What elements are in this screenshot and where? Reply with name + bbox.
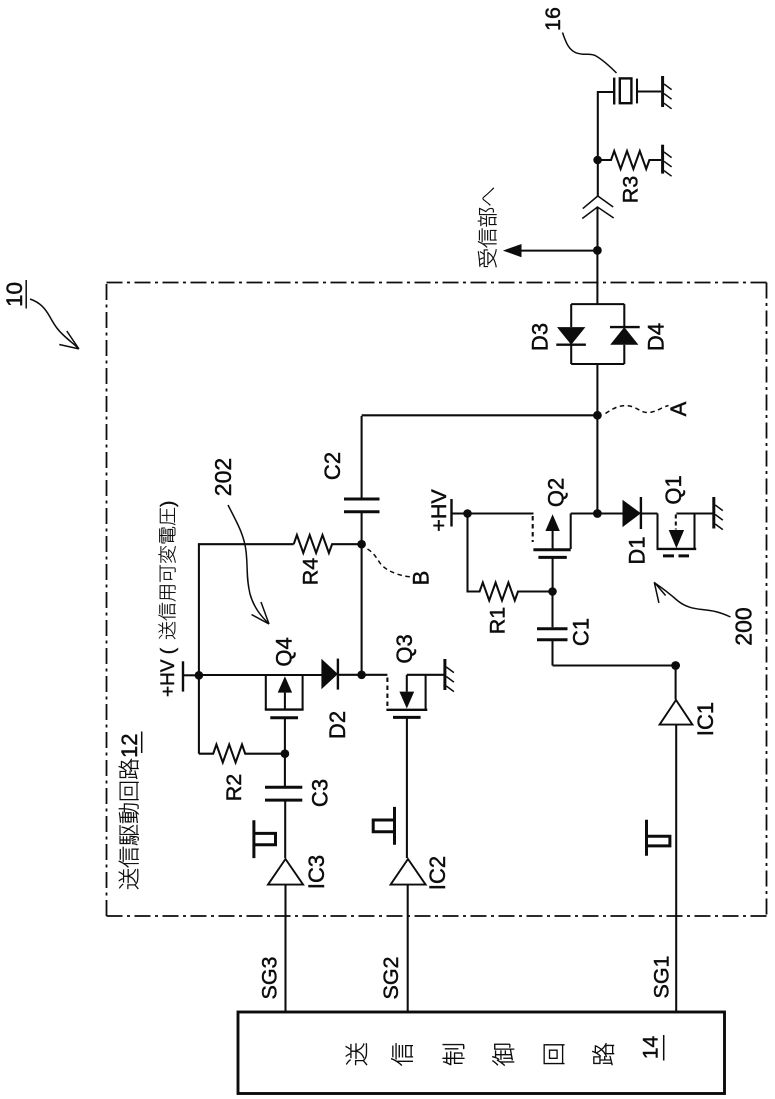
label 送信制御回路 xyxy=(346,1043,614,1066)
resistor R1 xyxy=(468,514,553,635)
transducer 16 (crystal) xyxy=(614,78,661,105)
resistor R3 xyxy=(598,151,661,203)
buffer IC3 xyxy=(268,855,329,1012)
svg-text:Q3: Q3 xyxy=(392,634,417,663)
+HV supply bar (left) xyxy=(183,661,199,691)
capacitor C2 xyxy=(320,416,380,544)
diode D3 xyxy=(528,323,586,351)
pulse waveform at IC2 xyxy=(373,807,396,845)
wire C2 top to node A xyxy=(362,414,598,416)
resistor R2 xyxy=(199,745,285,802)
buffer IC1 xyxy=(660,666,718,1013)
rail +HV to Q2 xyxy=(468,512,534,514)
leader arrow from 200 to Q1 xyxy=(654,582,730,617)
svg-text:R2: R2 xyxy=(222,774,246,801)
svg-text:B: B xyxy=(409,571,434,586)
svg-text:SG1: SG1 xyxy=(650,955,674,998)
leader line for 16 xyxy=(563,33,617,74)
svg-text:Q1: Q1 xyxy=(661,475,686,504)
+HV supply bar (right) xyxy=(452,499,468,527)
node (R2/C3/Q4 gate) xyxy=(281,749,290,758)
svg-text:D2: D2 xyxy=(325,711,350,739)
svg-text:+HV: +HV xyxy=(427,489,451,532)
transistor Q4 xyxy=(265,637,304,753)
diode D2 xyxy=(321,659,361,739)
label 16 xyxy=(541,7,565,31)
leader arrow from 202 to Q4 xyxy=(228,505,269,624)
svg-text:C2: C2 xyxy=(320,452,345,480)
capacitor C1 xyxy=(537,592,676,666)
arrow to receiver (受信部へ) xyxy=(478,188,597,267)
resistor R4 xyxy=(294,535,362,585)
svg-text:R1: R1 xyxy=(486,607,510,634)
svg-text:16: 16 xyxy=(541,7,565,31)
wire +HV node up to R4 xyxy=(199,544,294,754)
diode D4 xyxy=(610,323,669,351)
svg-text:202: 202 xyxy=(210,458,236,496)
diode box D3/D4 xyxy=(571,304,624,364)
svg-text:+HV (: +HV ( xyxy=(158,647,179,697)
node (+HV left rail) xyxy=(195,671,204,680)
svg-text:D1: D1 xyxy=(625,536,650,564)
dash-dot box of drive circuit 12 xyxy=(107,283,767,917)
node A xyxy=(593,411,602,420)
svg-text:A: A xyxy=(666,401,691,416)
ground (R3) xyxy=(663,145,672,177)
svg-text:C1: C1 xyxy=(569,618,594,646)
node B junction xyxy=(357,540,366,549)
node B dashed squiggle and label xyxy=(368,549,434,585)
label 14 (underlined) xyxy=(640,1035,664,1061)
node (R1/C1/Q2 gate) xyxy=(548,587,557,596)
node (receiver tap) xyxy=(593,246,602,255)
svg-text:SG3: SG3 xyxy=(258,956,282,999)
transistor Q3 xyxy=(362,634,445,858)
svg-text:Q4: Q4 xyxy=(272,637,297,666)
wire from transducer to main vertical xyxy=(598,92,614,196)
svg-text:12: 12 xyxy=(117,734,142,758)
label 10 (underlined) xyxy=(2,280,27,309)
pulse waveform at IC1 xyxy=(645,820,670,856)
svg-text:IC2: IC2 xyxy=(425,856,450,890)
svg-text:200: 200 xyxy=(731,607,757,645)
leader arrow from 10 to box xyxy=(30,299,79,349)
pulse waveform at IC3 xyxy=(253,820,276,858)
break symbol (double chevron) xyxy=(582,196,613,219)
svg-text:): ) xyxy=(158,501,179,507)
svg-text:Q2: Q2 xyxy=(543,478,568,507)
ground (transducer) xyxy=(663,76,672,109)
svg-text:D4: D4 xyxy=(644,323,669,351)
wire break to receiver node xyxy=(596,207,598,250)
transistor Q2 xyxy=(533,478,598,592)
buffer IC2 xyxy=(391,856,450,1012)
wire box to node A xyxy=(596,364,598,415)
node (+HV right rail) xyxy=(463,509,472,518)
node (D2 cathode / B line) xyxy=(357,671,366,680)
label 送信駆動回路12 (12 underlined) xyxy=(117,732,142,889)
ground (Q3) xyxy=(445,659,454,692)
diode D1 xyxy=(597,497,657,565)
svg-text:10: 10 xyxy=(2,282,27,307)
ground (Q1) xyxy=(714,497,723,530)
node (C1 / IC1) xyxy=(671,661,680,670)
svg-text:SG2: SG2 xyxy=(379,956,403,999)
svg-text:C3: C3 xyxy=(308,779,333,807)
transistor Q1 xyxy=(657,475,714,556)
node A dashed squiggle and label xyxy=(606,401,692,416)
svg-text:R4: R4 xyxy=(299,558,323,586)
+HV rail to Q4 and D2 xyxy=(199,674,322,676)
node (main rail / Q2 drain) xyxy=(593,509,602,518)
wire into drive circuit box xyxy=(596,250,598,304)
capacitor C3 xyxy=(265,754,333,858)
label +HV (送信用可変電圧) xyxy=(158,501,179,697)
svg-text:D3: D3 xyxy=(528,323,553,351)
svg-text:IC3: IC3 xyxy=(304,855,329,889)
wire node B down to D2 rail xyxy=(361,544,363,675)
svg-text:IC1: IC1 xyxy=(693,702,718,736)
wire node A down to rail xyxy=(596,415,598,513)
svg-text:14: 14 xyxy=(640,1036,663,1060)
control circuit box 14 xyxy=(238,1012,725,1094)
svg-text:R3: R3 xyxy=(619,176,643,204)
node (R3 tap) xyxy=(593,156,602,165)
